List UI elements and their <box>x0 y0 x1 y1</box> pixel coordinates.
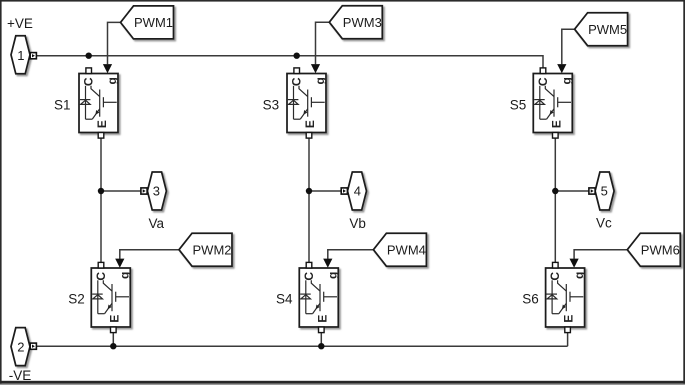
svg-text:S1: S1 <box>54 97 71 112</box>
port 2 connector <box>30 343 36 349</box>
port 1 hexagon <box>11 36 30 74</box>
svg-text:S2: S2 <box>68 291 85 306</box>
svg-text:PWM1: PWM1 <box>134 15 173 30</box>
wire PWM3 to S3 gate <box>316 22 330 64</box>
tag PWM4 <box>373 233 426 266</box>
wire S2 emitter to -VE bus <box>112 332 114 346</box>
wire S5 emitter to S6 collector <box>554 138 556 263</box>
tag PWM5 <box>575 13 628 46</box>
IGBT S4 <box>299 259 339 333</box>
port 1 connector <box>30 53 36 59</box>
IGBT S1 <box>79 64 119 138</box>
svg-text:PWM2: PWM2 <box>193 242 232 257</box>
frame right <box>683 0 685 385</box>
port 5 connector <box>589 188 595 194</box>
IGBT S3 <box>287 64 327 138</box>
port 4 connector <box>341 188 347 194</box>
wire node a to port 3 <box>101 190 141 192</box>
IGBT S2 <box>91 259 131 333</box>
IGBT S6 <box>546 259 586 333</box>
svg-text:-VE: -VE <box>9 368 32 383</box>
junction node b <box>306 188 312 194</box>
svg-text:PWM5: PWM5 <box>588 22 627 37</box>
wire PWM6 to S6 gate <box>574 250 627 259</box>
port 5 hexagon <box>595 172 614 210</box>
svg-text:3: 3 <box>153 183 160 198</box>
wire S4 emitter to -VE bus <box>320 332 322 346</box>
junction bottom bus leg2 <box>318 343 324 349</box>
junction node a <box>98 188 104 194</box>
wire PWM1 to S1 gate <box>108 22 121 64</box>
wire -VE bottom bus <box>35 345 568 347</box>
svg-text:S3: S3 <box>263 97 280 112</box>
wire PWM5 to S5 gate <box>562 29 575 64</box>
tag PWM3 <box>329 6 382 39</box>
port 2 hexagon <box>11 328 30 366</box>
svg-text:Vb: Vb <box>349 216 366 231</box>
wire PWM2 to S2 gate <box>120 250 179 259</box>
wire S6 emitter to -VE bus <box>567 332 569 346</box>
svg-text:Vc: Vc <box>596 216 612 231</box>
tag PWM6 <box>627 233 680 266</box>
svg-text:PWM4: PWM4 <box>387 242 426 257</box>
junction top bus leg1 <box>86 53 92 59</box>
wire PWM4 to S4 gate <box>328 250 374 259</box>
port 3 connector <box>141 188 147 194</box>
frame top <box>0 0 685 2</box>
frame left <box>0 0 2 385</box>
wire +VE top bus <box>35 56 543 68</box>
wire S1 emitter to S2 collector <box>100 138 102 263</box>
frame bottom <box>0 381 685 384</box>
svg-text:S4: S4 <box>276 291 293 306</box>
svg-text:Va: Va <box>148 216 164 231</box>
wire S3 emitter to S4 collector <box>308 138 310 263</box>
junction bottom bus leg1 <box>110 343 116 349</box>
svg-text:PWM6: PWM6 <box>641 242 680 257</box>
svg-text:2: 2 <box>17 339 24 354</box>
svg-text:4: 4 <box>354 183 361 198</box>
wire node c to port 5 <box>555 190 589 192</box>
svg-text:S6: S6 <box>522 291 539 306</box>
tag PWM1 <box>121 6 174 39</box>
svg-text:PWM3: PWM3 <box>343 15 382 30</box>
tag PWM2 <box>179 233 232 266</box>
IGBT S5 <box>533 64 573 138</box>
port 4 hexagon <box>348 172 367 210</box>
svg-text:1: 1 <box>17 48 24 63</box>
wire node b to port 4 <box>309 190 341 192</box>
svg-text:S5: S5 <box>510 97 527 112</box>
junction node c <box>552 188 558 194</box>
junction top bus leg2 <box>294 53 300 59</box>
svg-text:5: 5 <box>601 183 608 198</box>
svg-text:+VE: +VE <box>7 16 33 31</box>
port 3 hexagon <box>147 172 166 210</box>
